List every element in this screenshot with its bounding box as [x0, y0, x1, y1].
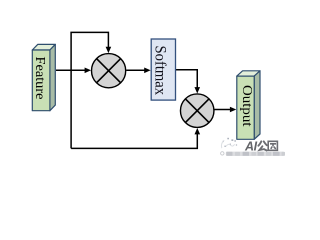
- svg-text:Output: Output: [240, 85, 255, 127]
- svg-text:Feature: Feature: [33, 57, 48, 100]
- svg-text:Softmax: Softmax: [151, 46, 168, 96]
- svg-text:AI: AI: [244, 139, 258, 153]
